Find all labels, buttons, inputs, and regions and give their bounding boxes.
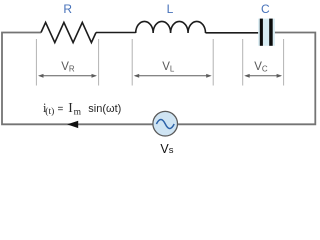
capacitor C right plate	[269, 19, 273, 46]
svg-text:VL: VL	[162, 61, 175, 73]
wire: inductor to capacitor (black)	[206, 32, 259, 34]
svg-text:i(t)=Imsin(ωt): i(t)=Imsin(ωt)	[43, 100, 121, 118]
svg-text:Vs: Vs	[160, 142, 173, 156]
capacitor C (dielectric fill)	[258, 19, 275, 46]
wire: gray loop right (source to right side, up, to capacitor right plate)	[177, 33, 315, 125]
resistor R	[41, 22, 96, 42]
dimension line: inductor right	[212, 39, 214, 86]
wire: resistor to inductor (black)	[96, 32, 136, 34]
dimension arrow V_R	[38, 74, 97, 78]
wire: gray loop left (top-left corner, left side, bottom to source)	[2, 33, 153, 125]
dimension line: resistor left	[35, 39, 37, 86]
svg-text:R: R	[63, 2, 72, 16]
svg-text:L: L	[167, 2, 174, 16]
AC source V_s circle	[153, 111, 178, 136]
dimension arrow V_C	[244, 74, 282, 78]
dimension line: capacitor right	[283, 39, 285, 86]
svg-text:C: C	[261, 2, 270, 16]
current arrow (pointing left)	[67, 121, 78, 128]
inductor L	[136, 21, 206, 33]
capacitor C left plate	[260, 19, 263, 46]
svg-text:VC: VC	[254, 61, 268, 73]
svg-text:VR: VR	[61, 61, 75, 73]
dimension arrow V_L	[134, 74, 212, 78]
dimension line: inductor left	[131, 39, 133, 86]
dimension line: capacitor left	[242, 39, 244, 86]
dimension line: resistor right	[98, 39, 100, 86]
AC source sine wave	[156, 120, 174, 129]
